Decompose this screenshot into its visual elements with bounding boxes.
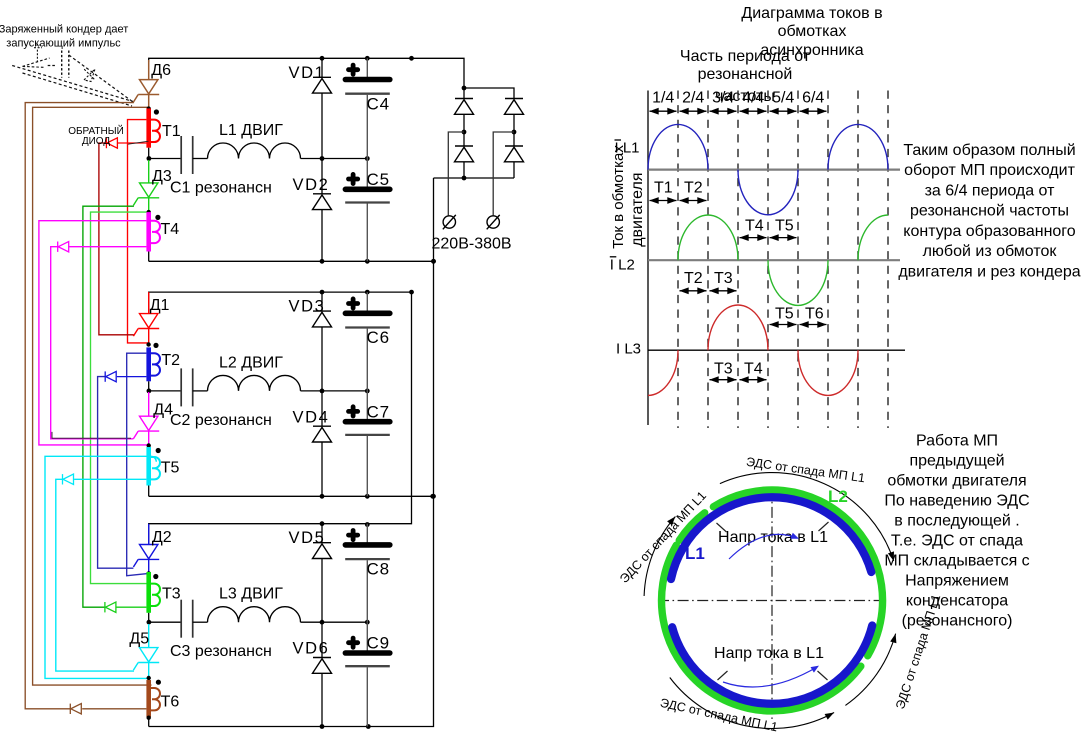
svg-text:C3 резонансн: C3 резонансн bbox=[170, 643, 272, 660]
wire T4 diode wire (magenta) to Д4 gate bbox=[69, 246, 147, 248]
grid dashed vertical 8/4 bbox=[887, 91, 889, 429]
svg-text:ДИОД: ДИОД bbox=[82, 136, 111, 147]
node bridge right mid bbox=[512, 130, 517, 135]
pulse transformer T1 (red) bbox=[146, 108, 151, 147]
ghost wire near T1 diode bbox=[128, 141, 149, 144]
node Д2/T3 junction bbox=[147, 571, 151, 575]
pulse transformer T6 (brown) bbox=[146, 680, 151, 717]
svg-text:L2: L2 bbox=[828, 487, 848, 506]
black arc arrow B (top) bbox=[720, 473, 894, 561]
node top bus / C4 column bbox=[365, 56, 370, 61]
wire T1 to mid node bbox=[148, 148, 150, 159]
wire AC input right (to terminal) bbox=[493, 132, 514, 215]
svg-text:за 6/4 периода от: за 6/4 периода от bbox=[925, 182, 1056, 199]
inductor L3 ДВИГ (3 humps) bbox=[208, 607, 301, 623]
node s3 bottom / C9 bbox=[366, 724, 371, 729]
thyristor Д5 bbox=[148, 624, 150, 648]
wire T1 diode loop (red) with diode to Д1 gate bbox=[118, 142, 148, 144]
wire T4 to section1 bottom bus bbox=[148, 252, 150, 262]
node L2 row junction bbox=[147, 389, 152, 394]
svg-text:VD6: VD6 bbox=[293, 640, 330, 658]
sketch dashed pointer lines to Д6 gate bbox=[12, 66, 133, 102]
capacitor C2 (film) bbox=[180, 368, 182, 406]
diode bridge D-d (right bottom) bbox=[505, 145, 523, 147]
node Д4/T5 junction bbox=[147, 443, 151, 447]
svg-text:Д6: Д6 bbox=[151, 62, 171, 79]
node top bus / VD1 column bbox=[320, 56, 325, 61]
svg-text:оборот МП происходит: оборот МП происходит bbox=[904, 162, 1075, 179]
node T6 bottom bbox=[147, 716, 151, 720]
diode VD2 bbox=[321, 159, 323, 194]
svg-text:C5: C5 bbox=[367, 170, 390, 189]
svg-text:T1: T1 bbox=[162, 123, 181, 140]
svg-text:Д3: Д3 bbox=[152, 168, 172, 185]
svg-text:двигателя и рез кондера: двигателя и рез кондера bbox=[898, 263, 1080, 280]
svg-text:VD1: VD1 bbox=[289, 64, 326, 82]
svg-text:T5: T5 bbox=[775, 306, 794, 323]
svg-text:T3: T3 bbox=[714, 361, 733, 378]
wire T1 coil-top (red) down to Д1 cathode node bbox=[128, 120, 149, 343]
diagonal tick NW bbox=[717, 523, 727, 532]
svg-text:запускающий импульс: запускающий импульс bbox=[6, 37, 121, 49]
axis I L2 (horizontal) bbox=[648, 259, 900, 261]
thyristor Д3 bbox=[140, 183, 158, 197]
node s2 bottom / right bus2 bbox=[431, 494, 436, 499]
svg-text:резонансной частоты: резонансной частоты bbox=[910, 203, 1069, 220]
svg-text:L1: L1 bbox=[685, 544, 705, 563]
svg-text:3/4: 3/4 bbox=[712, 90, 734, 107]
waveform I L1 (blue) hump -1 bbox=[738, 170, 798, 215]
svg-text:T5: T5 bbox=[161, 460, 180, 477]
node s3 top / C8 bbox=[365, 522, 370, 527]
wire T6 diode wire (brown) bbox=[82, 708, 146, 710]
svg-text:любой из обмоток: любой из обмоток bbox=[923, 243, 1058, 260]
svg-text:Заряженный кондер дает: Заряженный кондер дает bbox=[0, 24, 128, 36]
wire Д3 gate (green) down to T3 diode wire bbox=[83, 206, 134, 607]
waveform I L1 (blue) hump +1 bbox=[648, 124, 708, 169]
inductor L1 ДВИГ (3 humps) bbox=[208, 143, 301, 159]
svg-text:(резонансного): (резонансного) bbox=[902, 612, 1013, 629]
svg-text:T1: T1 bbox=[654, 180, 673, 197]
wire T3 to L3 node bbox=[148, 613, 150, 622]
wire Д6 gate (brown) to left harness bbox=[25, 103, 134, 709]
svg-text:VD2: VD2 bbox=[293, 176, 330, 194]
svg-text:Часть периода от: Часть периода от bbox=[680, 48, 811, 65]
svg-text:Д5: Д5 bbox=[129, 631, 149, 648]
svg-text:VD5: VD5 bbox=[289, 529, 326, 547]
svg-text:L2 ДВИГ: L2 ДВИГ bbox=[219, 354, 283, 371]
wire section3 bottom bus (y=726) bbox=[149, 178, 434, 727]
wire inductor to VD column bbox=[301, 390, 323, 392]
blue arrow top (Напр тока) bbox=[729, 534, 797, 559]
inductor L2 ДВИГ (3 humps) bbox=[208, 375, 301, 391]
svg-text:предыдущей: предыдущей bbox=[909, 452, 1004, 469]
wire T5 to section2 bottom bus bbox=[148, 486, 150, 497]
svg-text:C6: C6 bbox=[367, 328, 390, 347]
svg-text:T2: T2 bbox=[161, 352, 180, 369]
svg-text:5/4: 5/4 bbox=[772, 90, 794, 107]
ghost wire near Д4 gate bbox=[52, 432, 131, 438]
wire T5 coil-top (cyan) big loop down to Д5 cathode node bbox=[45, 456, 156, 678]
diode VD5 bbox=[321, 524, 323, 543]
diode VD3 bbox=[321, 292, 323, 311]
pulse transformer T3 (green) bbox=[146, 572, 151, 613]
node Д1/T2 junction bbox=[146, 342, 150, 346]
polarity dot T3 bbox=[153, 574, 158, 579]
svg-text:МП складывается с: МП складывается с bbox=[884, 552, 1029, 569]
grid dashed vertical 1/4 bbox=[677, 91, 679, 429]
diode VD4 bbox=[321, 391, 323, 426]
svg-text:C8: C8 bbox=[367, 560, 390, 579]
svg-text:обмотки двигателя: обмотки двигателя bbox=[887, 472, 1026, 489]
diode in T1 gate wire (red) bbox=[105, 138, 107, 148]
wire T3 diode wire (green) bbox=[116, 606, 147, 608]
wire section2 top bus (y=292) bbox=[149, 292, 412, 314]
wire bridge bottom (y=178) bbox=[434, 177, 515, 179]
wire C3 row left segment bbox=[149, 621, 182, 623]
node L3 row junction bbox=[147, 620, 152, 625]
grid dashed vertical 7/4 bbox=[857, 91, 859, 429]
wire AC input left (to terminal) bbox=[448, 132, 464, 215]
node Д5/T6 junction bbox=[147, 676, 151, 680]
y-axis (solid vertical) bbox=[647, 91, 649, 426]
waveform I L3 (red) hump -1 bbox=[798, 350, 858, 395]
pulse transformer T5 (cyan) bbox=[146, 447, 151, 486]
svg-text:T2: T2 bbox=[684, 180, 703, 197]
polarity dot T4 bbox=[155, 215, 160, 220]
capacitor C3 (film) bbox=[180, 600, 182, 638]
svg-text:Таким образом полный: Таким образом полный bbox=[903, 142, 1075, 159]
svg-text:VD4: VD4 bbox=[293, 408, 330, 426]
polarity dot T5 bbox=[156, 448, 161, 453]
thyristor Д4 bbox=[148, 392, 150, 416]
wire C2 row left segment bbox=[149, 390, 182, 392]
polarity dot T1 bbox=[154, 109, 159, 114]
svg-text:C2 резонансн: C2 резонансн bbox=[170, 412, 272, 429]
waveform I L1 (blue) hump +2 bbox=[828, 124, 888, 169]
green ring arc (main, with gaps) bbox=[679, 513, 704, 541]
wire Д6 cathode tap (brown) to left harness bbox=[33, 107, 152, 685]
thyristor Д2 bbox=[148, 524, 150, 545]
capacitor C1 (film) bbox=[180, 136, 182, 174]
green ring arc bottom bbox=[662, 545, 861, 711]
wire Д3 cathode tap (green) down to T3 coil-top bbox=[91, 212, 152, 583]
node row/C8 column bbox=[365, 620, 370, 625]
diagonal tick SW bbox=[718, 671, 728, 680]
svg-text:6/4: 6/4 bbox=[802, 90, 824, 107]
wire C1 row left segment bbox=[149, 158, 182, 160]
waveform I L2 (green) partial hump +2 (rising quarter) bbox=[858, 215, 888, 260]
svg-text:По наведению ЭДС: По наведению ЭДС bbox=[884, 492, 1029, 509]
svg-text:220В-380В: 220В-380В bbox=[432, 236, 512, 253]
diagonal tick NE bbox=[819, 522, 829, 531]
svg-text:Напряжением: Напряжением bbox=[905, 572, 1009, 589]
wire section2 bottom bus (y=496) bbox=[149, 495, 434, 497]
diode in T6 gate wire (brown) bbox=[69, 704, 71, 714]
terminal left (circle-slash) bbox=[443, 216, 455, 228]
svg-text:конденсатора: конденсатора bbox=[906, 592, 1008, 609]
diode in T2 gate wire (blue) bbox=[104, 371, 106, 381]
svg-text:Работа МП: Работа МП bbox=[916, 432, 998, 449]
node s2 top / C6 bbox=[365, 290, 370, 295]
blue arrow bottom (Напр тока) bbox=[723, 667, 817, 687]
grid dashed vertical 5/4 bbox=[797, 91, 799, 429]
sketch dashed diode bbox=[84, 69, 95, 82]
node bridge left mid bbox=[462, 130, 467, 135]
svg-text:T5: T5 bbox=[775, 217, 794, 234]
node s2 top / VD3 bbox=[320, 290, 325, 295]
node bridge top left bbox=[462, 86, 467, 91]
node Д3/T4 junction bbox=[147, 210, 151, 214]
wire VD to cap column bbox=[322, 158, 367, 160]
svg-text:Т.е. ЭДС от спада: Т.е. ЭДС от спада bbox=[891, 532, 1023, 549]
svg-text:T3: T3 bbox=[714, 270, 733, 287]
grid dashed vertical 4/4 bbox=[767, 91, 769, 429]
svg-text:двигателя: двигателя bbox=[629, 172, 646, 246]
svg-text:обмотках: обмотках bbox=[778, 23, 847, 40]
node bridge left bottom bbox=[462, 176, 467, 181]
wire bridge top (y=88) bbox=[464, 88, 514, 99]
dash-dot crosshair vertical bbox=[771, 487, 773, 720]
diode bridge D-a (left top) bbox=[463, 88, 465, 99]
node top bus / right bus bbox=[409, 56, 414, 61]
wire cap to inductor bbox=[193, 158, 208, 160]
polarity dot T2 bbox=[153, 343, 158, 348]
wire section1 bottom bus (y=261) bbox=[149, 260, 434, 262]
svg-text:L3 ДВИГ: L3 ДВИГ bbox=[219, 586, 283, 603]
svg-text:C7: C7 bbox=[367, 402, 390, 421]
capacitor C9 (electrolytic) bbox=[366, 622, 368, 651]
wire cap to inductor bbox=[193, 621, 208, 623]
blue arc bottom (winding L1 bottom) bbox=[672, 626, 872, 704]
svg-text:Д1: Д1 bbox=[150, 297, 170, 314]
waveform I L2 (green) hump -1 bbox=[768, 260, 828, 305]
capacitor C7 (electrolytic) bbox=[366, 391, 368, 420]
node right bus2 / s1 bottom bbox=[431, 259, 436, 264]
node L1 row junction bbox=[147, 156, 152, 161]
svg-text:L1 ДВИГ: L1 ДВИГ bbox=[219, 122, 283, 139]
pulse transformer T4 (magenta) bbox=[146, 212, 151, 251]
wire T4 coil-top (magenta) down to Д4 cathode node bbox=[39, 221, 149, 445]
thyristor Д6 bbox=[148, 60, 150, 80]
diode VD1 bbox=[321, 58, 323, 77]
svg-text:T4: T4 bbox=[161, 221, 180, 238]
pulse transformer T2 (blue) bbox=[146, 347, 151, 381]
wire node to Д3 bbox=[148, 160, 150, 183]
node bottom bus / C5 bbox=[365, 259, 370, 264]
grid dashed vertical 3/4 bbox=[737, 91, 739, 429]
waveform I L3 (red) partial hump -0 (rising quarter from minimum) bbox=[648, 350, 678, 395]
diode in T5 gate wire (cyan) bbox=[62, 474, 64, 484]
node s2 top / right bus bbox=[409, 290, 414, 295]
node bottom bus / right bus2 bbox=[431, 259, 436, 264]
node row/C6 column bbox=[365, 389, 370, 394]
wire section3 top bus (y=524) bbox=[149, 292, 412, 544]
node row/VD5 column bbox=[320, 620, 325, 625]
wire cap to inductor bbox=[193, 390, 208, 392]
diode bridge D-c (right top) bbox=[505, 98, 523, 100]
node row/VD1 column bbox=[320, 156, 325, 161]
dash-dot crosshair horizontal bbox=[658, 600, 886, 602]
sketch dashed spark-gap arrow bbox=[23, 58, 50, 66]
node bottom bus / VD2 bbox=[320, 259, 325, 264]
svg-text:Напр тока в L1: Напр тока в L1 bbox=[718, 529, 828, 546]
svg-text:I L3: I L3 bbox=[616, 341, 641, 358]
wire inductor to VD column bbox=[301, 621, 323, 623]
waveform I L3 (red) hump +1 bbox=[708, 305, 768, 350]
black arc arrow A (top-left) bbox=[644, 517, 675, 597]
node s3 top / VD5 bbox=[320, 521, 325, 526]
wire T2 diode wire (blue) to Д2 gate bbox=[117, 376, 146, 378]
svg-text:T6: T6 bbox=[161, 694, 180, 711]
green ring arc top to bottom-right bbox=[713, 490, 882, 656]
waveform I L2 (green) hump +1 bbox=[678, 215, 738, 260]
svg-text:Д2: Д2 bbox=[152, 529, 172, 546]
diagonal tick SE bbox=[818, 671, 828, 680]
arrows quarter spans row bbox=[650, 110, 677, 112]
node s2 bottom / C7 bbox=[365, 494, 370, 499]
wire top bus (section1 top, y=58) bbox=[149, 58, 464, 88]
sketch dashed capacitor bbox=[61, 51, 63, 78]
wire T5 diode wire (cyan) to Д5 gate bbox=[74, 478, 146, 480]
svg-text:C1 резонансн: C1 резонансн bbox=[170, 180, 272, 197]
svg-text:T2: T2 bbox=[684, 270, 703, 287]
svg-text:T6: T6 bbox=[805, 306, 824, 323]
node row/VD3 column bbox=[320, 389, 325, 394]
capacitor C8 (electrolytic) bbox=[366, 524, 368, 544]
diode bridge D-b (left bottom) bbox=[455, 145, 473, 147]
black arc arrow C (right-bottom) bbox=[845, 634, 895, 706]
black arc arrow D (bottom) bbox=[670, 678, 834, 729]
svg-text:T3: T3 bbox=[162, 585, 181, 602]
wire T2 coil-top (blue) down to Д2 cathode node bbox=[127, 353, 149, 576]
axis I L1 (horizontal) bbox=[648, 169, 900, 171]
wire VD to cap column bbox=[322, 390, 367, 392]
svg-text:Ток в обмотках: Ток в обмотках bbox=[610, 145, 627, 249]
grid dashed vertical 6/4 bbox=[827, 91, 829, 429]
wire T6 to section3 bottom bus bbox=[148, 717, 150, 727]
wire inductor to VD column bbox=[301, 158, 323, 160]
svg-text:2/4: 2/4 bbox=[682, 90, 704, 107]
svg-text:контура образованного: контура образованного bbox=[903, 223, 1075, 240]
thyristor Д1 bbox=[148, 292, 150, 314]
node row/C4 column bbox=[365, 156, 370, 161]
node s3 bottom / VD6 bbox=[320, 724, 325, 729]
grid dashed vertical 2/4 bbox=[707, 91, 709, 429]
svg-text:C9: C9 bbox=[367, 634, 390, 653]
capacitor C6 (electrolytic) bbox=[366, 292, 368, 312]
svg-text:I L2: I L2 bbox=[610, 256, 635, 273]
svg-text:T4: T4 bbox=[745, 217, 764, 234]
capacitor C4 (electrolytic) bbox=[366, 58, 368, 78]
diode VD6 bbox=[321, 622, 323, 657]
polarity dot T6 bbox=[156, 680, 161, 685]
svg-text:в последующей .: в последующей . bbox=[894, 512, 1019, 529]
terminal right (circle-slash) bbox=[487, 216, 499, 228]
blue arc top (winding L1 top) bbox=[671, 497, 871, 579]
diode in T4 gate wire (magenta) bbox=[57, 242, 59, 252]
svg-text:4/4: 4/4 bbox=[742, 90, 764, 107]
svg-text:Напр тока в L1: Напр тока в L1 bbox=[714, 645, 824, 662]
axis I L3 (horizontal) bbox=[648, 349, 905, 351]
svg-text:C4: C4 bbox=[367, 94, 390, 113]
node Д6/T1 junction bbox=[147, 106, 151, 110]
svg-text:1/4: 1/4 bbox=[652, 90, 674, 107]
svg-text:Диаграмма токов в: Диаграмма токов в bbox=[741, 5, 882, 22]
svg-text:T4: T4 bbox=[744, 361, 763, 378]
wire T2 to L2 node bbox=[148, 381, 150, 391]
diode in T3 gate wire (green) bbox=[104, 602, 106, 612]
wire VD to cap column bbox=[322, 621, 367, 623]
node right bus2 / s2 bottom bbox=[430, 494, 435, 499]
capacitor C5 (electrolytic) bbox=[366, 159, 368, 188]
svg-text:резонансной: резонансной bbox=[698, 66, 793, 83]
svg-text:VD3: VD3 bbox=[289, 298, 326, 316]
node s2 bottom / VD4 bbox=[320, 494, 325, 499]
